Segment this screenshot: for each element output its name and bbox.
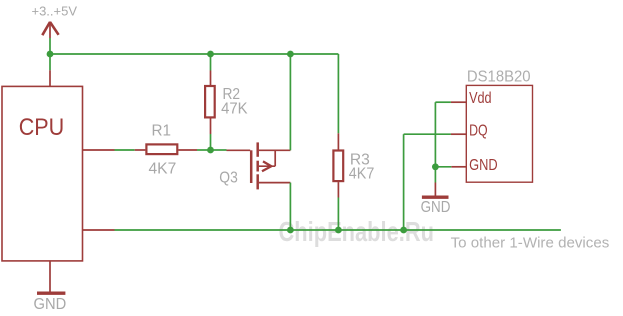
transistor Q3 gate bar <box>250 150 253 183</box>
transistor Q3 drain lead <box>259 149 291 151</box>
svg-text:4K7: 4K7 <box>349 166 375 183</box>
wire: power stem green <box>49 38 51 54</box>
power supply arrow symbol <box>42 22 58 39</box>
svg-text:4K7: 4K7 <box>149 160 177 177</box>
svg-text:47K: 47K <box>221 100 248 117</box>
wire: gate node to Q3 gate <box>211 149 227 151</box>
node: junction VCC at R2 <box>207 51 214 58</box>
resistor R2 top lead <box>210 71 212 86</box>
svg-text:Vdd: Vdd <box>469 90 492 107</box>
wire: GND pin to ground node <box>435 166 451 168</box>
node: junction VCC at CPU power pin <box>47 51 54 58</box>
transistor Q3 channel middle segment <box>256 161 259 172</box>
wire: VCC rail down to R3 <box>337 54 339 133</box>
svg-text:To other 1-Wire devices: To other 1-Wire devices <box>451 235 610 252</box>
svg-text:CPU: CPU <box>19 114 64 141</box>
transistor Q3 bulk arrow line <box>259 165 275 167</box>
node: gate node junction <box>207 147 214 154</box>
resistor R3 top lead <box>337 133 339 149</box>
node: junction data line at R3 <box>335 227 342 234</box>
wire: R1 to gate node <box>197 149 211 151</box>
svg-text:Q3: Q3 <box>219 169 238 186</box>
wire: DQ branch vertical <box>403 134 405 230</box>
resistor R3 bottom lead <box>337 182 339 197</box>
wire: R2 to gate node <box>210 134 212 150</box>
wire: R3 down to data line <box>337 198 339 231</box>
resistor R1 body <box>146 144 177 154</box>
svg-text:GND: GND <box>469 157 498 174</box>
transistor Q3 arrow head <box>262 161 271 171</box>
DS18B20 box <box>466 85 532 182</box>
transistor Q3 bulk connection <box>274 151 276 166</box>
resistor R2 body <box>205 86 215 117</box>
wire: Vdd pin to vertical <box>435 101 451 103</box>
node: junction data line at DQ branch <box>400 227 407 234</box>
wire: Vdd vertical down to ground node <box>434 102 436 167</box>
wire: green drop from rail to CPU power pin <box>49 54 51 70</box>
DS18B20 Vdd pin lead <box>451 101 466 103</box>
wire: 1-Wire data line <box>115 229 561 231</box>
svg-text:DS18B20: DS18B20 <box>467 69 531 86</box>
node: junction Vdd-GND ground node <box>432 163 439 170</box>
wire: CPU gate pin to R1 <box>115 149 135 151</box>
wire: top VCC rail <box>49 53 338 55</box>
wire: Q3 source down to data line <box>289 183 291 230</box>
ground symbol at DS18B20 <box>422 195 449 198</box>
transistor Q3 source lead <box>259 182 291 184</box>
svg-text:+3..+5V: +3..+5V <box>32 4 78 18</box>
svg-text:ChipEnable.Ru: ChipEnable.Ru <box>279 216 435 247</box>
wire: DQ branch horizontal <box>404 133 451 135</box>
CPU gate-drive pin lead <box>83 149 115 151</box>
svg-text:DQ: DQ <box>469 123 488 140</box>
resistor R1 right lead <box>178 149 197 151</box>
node: junction data line at Q3 source <box>287 227 294 234</box>
DS18B20 DQ pin lead <box>451 133 466 135</box>
svg-text:GND: GND <box>421 199 451 216</box>
svg-text:GND: GND <box>34 296 67 313</box>
CPU power pin lead <box>49 70 51 86</box>
CPU data pin lead <box>83 229 115 231</box>
wire: VCC rail down to R2 <box>210 54 212 71</box>
svg-text:R1: R1 <box>152 123 172 140</box>
transistor Q3 gate lead <box>227 149 251 151</box>
ground symbol lead at DS18B20 <box>434 183 436 196</box>
CPU ground pin lead <box>49 261 51 292</box>
resistor R2 bottom lead <box>210 118 212 134</box>
CPU box <box>2 86 83 261</box>
node: junction VCC at Q3 drain branch <box>287 51 294 58</box>
transistor Q3 channel bottom segment <box>256 174 259 189</box>
wire: ground node down <box>434 167 436 183</box>
resistor R1 left lead <box>135 149 146 151</box>
wire: Q3 drain up to VCC rail <box>289 54 291 150</box>
resistor R3 body <box>333 151 343 182</box>
ground symbol at CPU <box>37 292 65 295</box>
DS18B20 GND pin lead <box>451 166 466 168</box>
transistor Q3 channel top segment <box>256 142 259 156</box>
